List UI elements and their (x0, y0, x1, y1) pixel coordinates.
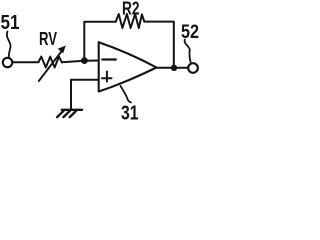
wire: op-amp output to terminal 52 (157, 67, 189, 69)
resistor R2 (116, 14, 145, 28)
wire: terminal 51 to RV (12, 61, 38, 63)
svg-text:R2: R2 (122, 0, 140, 19)
wire: junction up to R2 (84, 22, 115, 61)
wire: R2 to output node (144, 22, 174, 68)
wire: RV to inverting input (62, 61, 99, 63)
svg-text:31: 31 (121, 101, 139, 120)
lead line from 31 to op-amp (121, 86, 131, 102)
variable resistor RV (39, 57, 62, 68)
svg-text:RV: RV (39, 29, 57, 49)
ground hatch strokes (57, 111, 76, 117)
node: junction at output (171, 65, 177, 71)
node: junction at inverting input (81, 57, 88, 64)
ground bar (62, 109, 82, 111)
input terminal 51 (3, 58, 12, 67)
op-amp non-inverting input (+) (102, 72, 112, 82)
svg-text:52: 52 (181, 22, 199, 43)
svg-text:51: 51 (1, 12, 20, 34)
output terminal 52 (188, 63, 198, 73)
RV wiper arrowhead (58, 46, 66, 54)
lead line from 51 to input terminal (7, 32, 11, 58)
op-amp 31 body (99, 42, 157, 91)
wire: non-inverting input to ground (71, 80, 99, 109)
op-amp inverting input (-) (102, 58, 116, 60)
lead line from 52 to output terminal (185, 40, 191, 63)
RV wiper arrow (39, 52, 61, 81)
